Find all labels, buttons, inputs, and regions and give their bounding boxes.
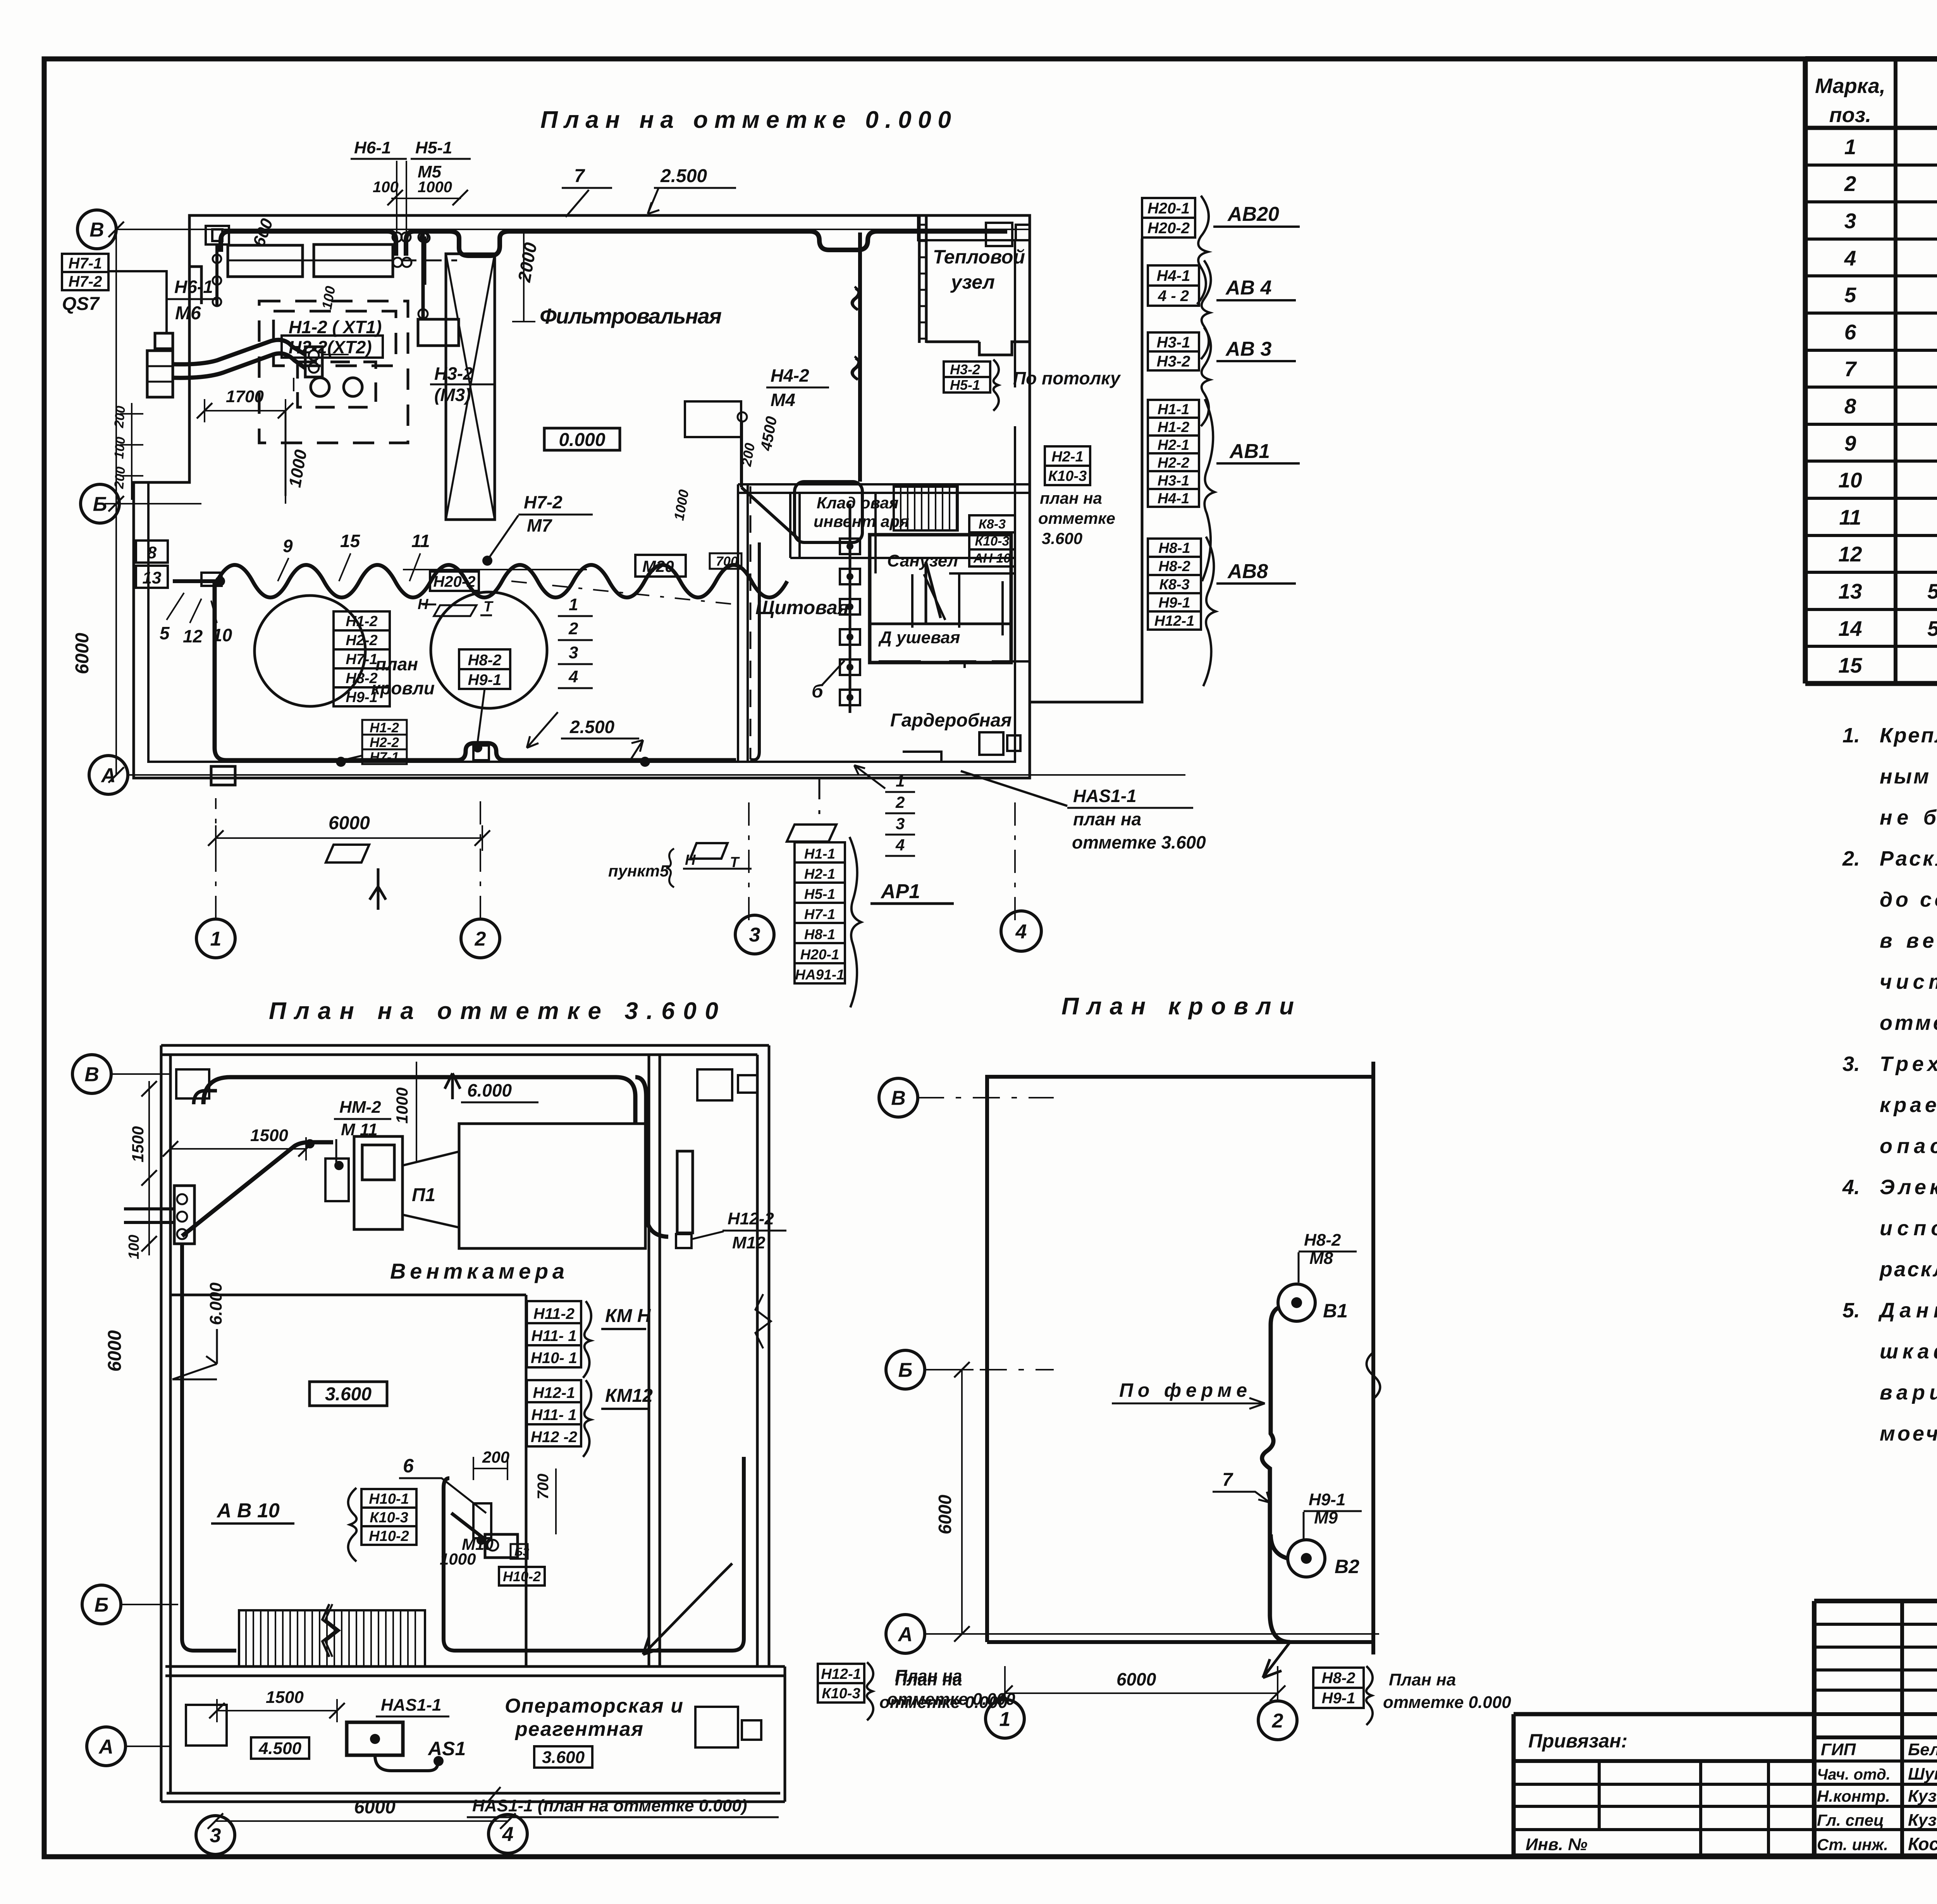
svg-text:Гл. спец: Гл. спец <box>1817 1811 1884 1829</box>
svg-text:3.600: 3.600 <box>542 1748 585 1767</box>
svg-text:3.600: 3.600 <box>325 1384 372 1405</box>
svg-text:М12: М12 <box>732 1233 766 1252</box>
svg-text:К10-3: К10-3 <box>1048 468 1087 484</box>
svg-text:4: 4 <box>568 667 578 686</box>
svg-text:Н12 -2: Н12 -2 <box>531 1429 577 1446</box>
svg-text:АВ 4: АВ 4 <box>1225 277 1272 299</box>
svg-text:план на: план на <box>1040 489 1102 507</box>
svg-text:раскладки вычерчиваются.: раскладки вычерчиваются. <box>1879 1258 1937 1281</box>
svg-text:12: 12 <box>183 626 203 646</box>
top-right small boxes <box>697 1069 732 1100</box>
svg-text:реагентная: реагентная <box>514 1718 643 1740</box>
svg-text:100: 100 <box>373 179 399 196</box>
svg-text:Н11- 1: Н11- 1 <box>531 1406 576 1424</box>
svg-text:К8-3: К8-3 <box>979 517 1006 532</box>
svg-text:Б: Б <box>95 1594 109 1617</box>
М5 cable drop <box>424 236 427 285</box>
svg-text:15: 15 <box>1838 653 1863 677</box>
svg-text:3: 3 <box>569 643 578 662</box>
svg-text:11: 11 <box>411 531 430 551</box>
svg-text:Чач. отд.: Чач. отд. <box>1817 1766 1891 1783</box>
cable to QS7 <box>173 340 305 364</box>
svg-text:10: 10 <box>1838 468 1862 492</box>
svg-text:узел: узел <box>950 271 995 293</box>
interior walls <box>738 484 748 762</box>
svg-text:Н11-2: Н11-2 <box>533 1305 575 1322</box>
svg-text:6.000: 6.000 <box>467 1080 512 1100</box>
Н20-2 callout <box>430 572 479 591</box>
svg-text:А: А <box>98 1736 114 1758</box>
svg-text:8: 8 <box>147 543 157 562</box>
svg-text:13: 13 <box>143 568 162 587</box>
filter unit with X bracing <box>446 254 495 520</box>
svg-text:Н2-1: Н2-1 <box>1051 449 1083 465</box>
svg-text:Н9-1: Н9-1 <box>1158 595 1190 611</box>
svg-text:100: 100 <box>126 1235 142 1259</box>
svg-text:2: 2 <box>568 619 578 638</box>
svg-text:QS7: QS7 <box>62 294 100 314</box>
dashed chemical treatment area <box>259 301 408 443</box>
svg-text:АВ1: АВ1 <box>1229 440 1270 463</box>
В1 vent <box>1278 1284 1315 1321</box>
АР1 stack <box>787 825 836 842</box>
svg-text:план на: план на <box>1073 809 1141 829</box>
axis А <box>89 756 128 794</box>
svg-text:Н11- 1: Н11- 1 <box>531 1327 576 1345</box>
svg-text:Н2-2: Н2-2 <box>346 632 377 649</box>
М6 panel top-left <box>206 226 229 244</box>
outer walls plan 3.600 <box>161 1045 769 1055</box>
svg-text:Н12-1: Н12-1 <box>533 1384 575 1401</box>
axis 4 <box>1001 911 1041 951</box>
svg-text:13: 13 <box>1838 579 1862 603</box>
svg-text:3: 3 <box>896 814 905 833</box>
svg-text:1: 1 <box>1844 135 1856 159</box>
svg-text:Н12-1: Н12-1 <box>821 1666 861 1682</box>
svg-text:Н5-1: Н5-1 <box>804 886 835 902</box>
svg-text:Н7-1: Н7-1 <box>346 651 377 668</box>
axis 1 <box>196 919 235 958</box>
svg-text:Н7-1: Н7-1 <box>370 750 399 765</box>
svg-text:4: 4 <box>1844 246 1856 270</box>
svg-text:2: 2 <box>475 928 486 950</box>
svg-text:3: 3 <box>749 924 760 946</box>
svg-text:Н9-1: Н9-1 <box>468 671 502 689</box>
svg-text:Н2-1: Н2-1 <box>804 866 835 882</box>
svg-text:НАS1-1: НАS1-1 <box>381 1696 442 1715</box>
svg-text:1: 1 <box>896 772 905 790</box>
stair hatch <box>894 487 958 530</box>
svg-text:7: 7 <box>1844 357 1857 381</box>
svg-text:Н10- 1: Н10- 1 <box>531 1350 577 1367</box>
svg-text:Косырев: Косырев <box>1908 1834 1937 1854</box>
svg-text:5.: 5. <box>1842 1299 1860 1322</box>
svg-text:6: 6 <box>403 1455 414 1477</box>
svg-text:Т: Т <box>730 854 740 871</box>
svg-text:Н6-1: Н6-1 <box>174 277 213 297</box>
svg-text:К10-3: К10-3 <box>975 534 1010 549</box>
axis B <box>72 1055 111 1093</box>
title block: name table grid <box>1812 1601 1817 1856</box>
svg-text:Гардеробная: Гардеробная <box>890 710 1012 731</box>
svg-text:1: 1 <box>569 595 578 614</box>
svg-text:4: 4 <box>1015 921 1027 943</box>
svg-text:Н9-1: Н9-1 <box>1322 1690 1356 1707</box>
svg-text:Инв. №: Инв. № <box>1526 1835 1588 1854</box>
svg-text:Н7-1: Н7-1 <box>804 906 835 922</box>
svg-text:4: 4 <box>895 836 905 854</box>
svg-text:отметке 0.000: отметке 0.000 <box>1383 1693 1511 1712</box>
svg-text:5.407-7 лист 45: 5.407-7 лист 45 <box>1927 616 1937 640</box>
svg-text:Д ушевая: Д ушевая <box>878 628 960 647</box>
М12 unit right <box>677 1151 693 1233</box>
Н12-1 К10-3 stack (right of stair) <box>818 1664 864 1683</box>
svg-text:4 - 2: 4 - 2 <box>1158 287 1189 305</box>
svg-text:100: 100 <box>112 436 128 460</box>
svg-text:К8-3: К8-3 <box>1159 577 1189 593</box>
svg-text:Ст. инж.: Ст. инж. <box>1817 1835 1888 1854</box>
Н10 stack with brace <box>361 1489 416 1508</box>
svg-text:Н1-1: Н1-1 <box>804 846 835 862</box>
КМН КМ12 stacks <box>527 1301 581 1323</box>
svg-text:6.000: 6.000 <box>206 1282 225 1325</box>
svg-text:Венткамера: Венткамера <box>390 1259 564 1283</box>
0.000 elevation box <box>544 428 620 450</box>
svg-text:Н8-2: Н8-2 <box>468 652 502 669</box>
svg-text:Н2-2: Н2-2 <box>1158 455 1189 471</box>
svg-text:Н9-1: Н9-1 <box>346 689 377 706</box>
svg-text:Белоус: Белоус <box>1908 1740 1937 1759</box>
svg-text:700: 700 <box>716 554 738 569</box>
axis lines <box>115 229 1030 230</box>
svg-text:Шунский: Шунский <box>1908 1765 1937 1783</box>
svg-text:Н8-1: Н8-1 <box>1158 540 1190 556</box>
svg-text:НМ-2: НМ-2 <box>339 1098 381 1117</box>
svg-text:НАS1-1 (план на отметке 0.000): НАS1-1 (план на отметке 0.000) <box>472 1796 747 1815</box>
tank circles <box>255 596 365 706</box>
М20 700 <box>635 555 686 577</box>
bottom features <box>326 845 369 862</box>
svg-text:2.: 2. <box>1842 847 1860 870</box>
svg-text:2: 2 <box>895 793 905 811</box>
svg-text:(М3): (М3) <box>434 385 471 405</box>
Н2-1 К10-3 callout <box>1045 446 1090 466</box>
svg-text:Н: Н <box>418 596 429 613</box>
svg-text:П1: П1 <box>412 1185 435 1205</box>
svg-text:М4: М4 <box>771 390 795 410</box>
shower stalls <box>912 574 959 628</box>
axis А <box>87 1727 126 1766</box>
axis B <box>77 210 116 249</box>
svg-text:Н6-1: Н6-1 <box>354 138 391 157</box>
svg-text:3.600: 3.600 <box>1042 529 1082 547</box>
svg-text:700: 700 <box>535 1474 552 1499</box>
svg-text:4.500: 4.500 <box>258 1739 302 1758</box>
svg-text:Н1-2: Н1-2 <box>370 720 399 735</box>
svg-text:Кузнецов: Кузнецов <box>1908 1811 1937 1830</box>
svg-text:АВ 3: АВ 3 <box>1225 338 1272 360</box>
svg-text:200: 200 <box>112 466 128 490</box>
bottom left stack <box>362 720 407 735</box>
svg-text:КМ12: КМ12 <box>605 1386 653 1406</box>
small rects in room <box>186 1705 227 1746</box>
svg-text:Марка,: Марка, <box>1815 74 1885 98</box>
АР1 feed line <box>819 778 821 824</box>
svg-text:Н7-1: Н7-1 <box>69 255 102 272</box>
axis 2 <box>461 919 500 958</box>
svg-text:пункт5: пункт5 <box>608 862 669 880</box>
svg-text:М20: М20 <box>642 557 674 575</box>
axis 3 <box>735 915 774 954</box>
svg-text:12: 12 <box>1838 542 1862 566</box>
svg-text:Трехметровая зона по верт: Трехметровая зона по вертикали и горизон… <box>1880 1052 1937 1076</box>
svg-text:В1: В1 <box>1323 1300 1348 1322</box>
svg-text:1000: 1000 <box>418 179 452 196</box>
svg-text:Н.контр.: Н.контр. <box>1817 1787 1890 1805</box>
венткамера inner walls <box>170 1295 526 1666</box>
title block texts <box>1526 1618 1937 1854</box>
svg-text:Н20-1: Н20-1 <box>800 947 839 962</box>
svg-text:план: план <box>375 654 418 674</box>
svg-text:200: 200 <box>112 405 128 429</box>
svg-text:отметке 0.000: отметке 0.000 <box>879 1693 1008 1712</box>
svg-text:Н5-1: Н5-1 <box>950 377 980 393</box>
axis lines <box>917 1097 1054 1098</box>
svg-text:Н5-1: Н5-1 <box>415 138 452 157</box>
svg-text:Н12-2: Н12-2 <box>728 1209 774 1228</box>
svg-text:План на: План на <box>1389 1670 1456 1689</box>
lightning arrow <box>643 1577 719 1654</box>
svg-text:200: 200 <box>482 1448 509 1466</box>
cable top loop <box>203 1077 635 1124</box>
svg-text:не более 800 мм.: не более 800 мм. <box>1880 806 1937 829</box>
svg-text:отметкой чистого пола.: отметкой чистого пола. <box>1880 1011 1937 1035</box>
svg-text:в венткамере - на отметке: в венткамере - на отметке минус 50 мм от… <box>1880 929 1937 952</box>
svg-text:Данный кабель прокладывает: Данный кабель прокладывается от аппаратн… <box>1878 1299 1937 1322</box>
svg-text:М 11: М 11 <box>341 1120 378 1139</box>
6.000 arrow top <box>445 1073 460 1099</box>
svg-text:9: 9 <box>1844 431 1856 455</box>
М3 cable drop <box>421 232 425 318</box>
roof outline <box>987 1062 1373 1654</box>
svg-text:Н3-2: Н3-2 <box>950 362 980 377</box>
svg-text:3.: 3. <box>1842 1052 1860 1076</box>
svg-text:Н20-1: Н20-1 <box>1147 200 1190 217</box>
svg-text:Клад овая: Клад овая <box>817 494 899 512</box>
svg-text:А: А <box>100 764 116 787</box>
svg-text:6000: 6000 <box>329 813 370 833</box>
svg-text:отметке 3.600: отметке 3.600 <box>1072 832 1206 852</box>
right callout stacks АВ <box>1030 239 1142 702</box>
svg-text:поз.: поз. <box>1829 103 1872 127</box>
svg-text:2: 2 <box>1844 172 1856 196</box>
svg-text:Н: Н <box>685 852 696 868</box>
svg-text:Н10-2: Н10-2 <box>369 1528 409 1544</box>
svg-text:Н7-2: Н7-2 <box>524 492 563 512</box>
svg-text:Кузнецов: Кузнецов <box>1908 1787 1937 1806</box>
svg-text:Н1-2 ( ХТ1): Н1-2 ( ХТ1) <box>289 317 382 337</box>
svg-text:Санузел: Санузел <box>887 551 958 570</box>
svg-text:1500: 1500 <box>129 1126 147 1162</box>
axis 3 <box>196 1816 235 1854</box>
svg-text:Н1-2: Н1-2 <box>346 613 377 630</box>
svg-text:Н2-2: Н2-2 <box>370 735 399 750</box>
svg-text:АР1: АР1 <box>880 880 920 903</box>
svg-text:4.: 4. <box>1842 1176 1860 1199</box>
svg-text:АН 10: АН 10 <box>973 551 1011 566</box>
svg-text:НАS1-1: НАS1-1 <box>1073 786 1137 806</box>
svg-text:5.407-7 лист 41: 5.407-7 лист 41 <box>1927 579 1937 603</box>
svg-text:6: 6 <box>1844 320 1856 344</box>
svg-text:6000: 6000 <box>935 1494 955 1534</box>
svg-text:В: В <box>89 219 104 241</box>
svg-text:Н12-1: Н12-1 <box>1154 613 1195 629</box>
кладовая rounded room <box>795 482 862 542</box>
svg-text:АВ20: АВ20 <box>1227 203 1279 226</box>
svg-text:ГИП: ГИП <box>1821 1740 1856 1759</box>
svg-text:В2: В2 <box>1335 1556 1359 1577</box>
svg-text:Щитовая: Щитовая <box>755 597 849 618</box>
svg-text:А: А <box>897 1623 913 1646</box>
svg-text:8: 8 <box>1844 394 1856 418</box>
svg-text:0.000: 0.000 <box>559 430 605 450</box>
svg-text:Н4-1: Н4-1 <box>1158 491 1189 507</box>
svg-text:Н3-1: Н3-1 <box>1158 473 1189 489</box>
svg-text:Н3-1: Н3-1 <box>1157 334 1190 351</box>
Н8-2 Н9-1 stack bottom <box>1313 1668 1364 1688</box>
svg-text:Н7-2: Н7-2 <box>69 273 102 290</box>
cable diagonal to М11 <box>182 1142 333 1236</box>
svg-text:1.: 1. <box>1842 724 1860 747</box>
svg-text:Т: Т <box>483 599 494 615</box>
8 13 stack <box>136 541 168 563</box>
В2 vent <box>1288 1540 1325 1577</box>
П1 unit <box>459 1124 645 1248</box>
svg-text:7: 7 <box>1222 1470 1233 1490</box>
svg-text:1700: 1700 <box>226 387 264 406</box>
svg-text:2.500: 2.500 <box>660 166 707 186</box>
svg-text:2.500: 2.500 <box>569 717 615 737</box>
axis 4 <box>489 1814 527 1853</box>
svg-text:1500: 1500 <box>250 1126 288 1145</box>
svg-text:М6: М6 <box>175 303 201 324</box>
svg-text:1500: 1500 <box>266 1688 304 1707</box>
4.500 3.600 boxes <box>251 1737 309 1759</box>
break marks right <box>1367 1352 1380 1399</box>
QS7 panel <box>62 254 108 272</box>
svg-text:отметке: отметке <box>1038 509 1115 527</box>
svg-text:М8: М8 <box>1309 1249 1333 1268</box>
cable down left wall <box>182 1244 236 1651</box>
bottom cable <box>215 581 736 760</box>
svg-text:М9: М9 <box>1314 1508 1338 1527</box>
svg-text:АS1: АS1 <box>427 1738 466 1759</box>
svg-text:шкафа моечной установки: шкафа моечной установки <box>1880 1340 1937 1363</box>
svg-text:ным конструкциям , выполнит: ным конструкциям , выполнить скобами и п… <box>1880 765 1937 788</box>
svg-text:Привязан:: Привязан: <box>1528 1730 1627 1752</box>
svg-text:7: 7 <box>574 166 585 186</box>
svg-text:чистого пола , концы труб: чистого пола , концы труб вывести на 100… <box>1880 970 1937 993</box>
svg-text:Н1-1: Н1-1 <box>1158 401 1189 418</box>
svg-text:Н9-1: Н9-1 <box>1309 1490 1345 1509</box>
svg-text:1: 1 <box>210 928 222 950</box>
svg-text:Н8-2: Н8-2 <box>1158 558 1190 575</box>
3.600 box <box>310 1382 387 1406</box>
svg-text:Н20-2: Н20-2 <box>434 573 476 590</box>
svg-text:6000: 6000 <box>354 1797 396 1818</box>
svg-text:Н8-2: Н8-2 <box>1304 1231 1341 1250</box>
axis Б <box>82 1585 121 1624</box>
break marks right wall <box>755 1294 771 1348</box>
svg-text:Б: Б <box>898 1359 913 1382</box>
axis Б <box>81 484 119 523</box>
svg-text:Н1-2: Н1-2 <box>1158 419 1189 436</box>
svg-text:6000: 6000 <box>105 1330 125 1372</box>
svg-text:Тепловой: Тепловой <box>933 246 1025 268</box>
svg-text:6000: 6000 <box>72 633 93 674</box>
svg-text:В: В <box>891 1087 906 1110</box>
cable В1-В2 down <box>1262 1308 1290 1642</box>
axis lines <box>110 1073 170 1075</box>
stair hatch bottom <box>239 1610 425 1666</box>
svg-text:5: 5 <box>1844 283 1857 307</box>
svg-text:В: В <box>84 1064 99 1086</box>
svg-text:КМ Н: КМ Н <box>605 1306 651 1326</box>
svg-text:моечной. установки: моечной. установки <box>1880 1422 1937 1445</box>
svg-text:15: 15 <box>340 531 361 551</box>
svg-text:НА91-1: НА91-1 <box>795 967 845 983</box>
axis circles <box>879 1078 918 1117</box>
svg-text:План кровли: План кровли <box>1061 993 1294 1020</box>
wavy cable (flexible loop) <box>217 565 787 597</box>
санузел room walls <box>870 535 1011 663</box>
left connectors <box>174 1186 194 1244</box>
svg-text:14: 14 <box>1838 616 1862 640</box>
outer walls plan 0.000 <box>134 215 1030 778</box>
svg-text:Фильтровальная: Фильтровальная <box>540 304 722 328</box>
svg-text:Крепление электрокабелей ,: Крепление электрокабелей , прокладываемы… <box>1880 724 1937 747</box>
svg-text:Н4-2: Н4-2 <box>771 365 809 386</box>
М10 unit <box>473 1503 491 1538</box>
Щитовая switch cabinets <box>840 539 860 554</box>
svg-text:11: 11 <box>1839 505 1861 529</box>
svg-text:К10-3: К10-3 <box>822 1685 860 1702</box>
svg-text:К10-3: К10-3 <box>370 1510 408 1526</box>
title block: privyazan table <box>1512 1714 1516 1856</box>
equipment rows <box>228 245 303 277</box>
svg-text:А В 10: А В 10 <box>216 1499 280 1522</box>
svg-text:Н10-2: Н10-2 <box>503 1568 541 1584</box>
svg-text:5: 5 <box>160 623 170 643</box>
5-stack <box>334 611 390 630</box>
svg-text:Н2-1: Н2-1 <box>1158 437 1189 453</box>
svg-text:3: 3 <box>210 1825 221 1847</box>
svg-text:Н8-1: Н8-1 <box>804 926 835 942</box>
svg-text:6000: 6000 <box>1116 1669 1156 1689</box>
inner wall lines <box>148 426 1015 762</box>
svg-text:Н10-1: Н10-1 <box>369 1491 409 1507</box>
svg-text:Н8-2: Н8-2 <box>346 670 377 687</box>
svg-text:Н20-2: Н20-2 <box>1147 220 1190 237</box>
svg-text:По потолку: По потолку <box>1013 368 1121 388</box>
svg-text:Операторская и: Операторская и <box>505 1695 683 1717</box>
svg-text:Н3-2: Н3-2 <box>1157 353 1190 370</box>
svg-text:План на: План на <box>895 1670 962 1689</box>
svg-text:1000: 1000 <box>393 1088 411 1124</box>
svg-text:2: 2 <box>1272 1710 1283 1732</box>
cable along top wall <box>221 231 1007 256</box>
svg-text:Н4-1: Н4-1 <box>1157 267 1190 284</box>
